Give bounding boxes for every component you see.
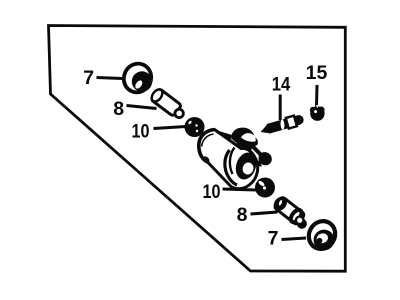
wheel cylinder body [199, 130, 260, 189]
svg-text:7: 7 [268, 228, 279, 250]
svg-text:10: 10 [203, 181, 221, 203]
bleeder cap 15 [310, 105, 325, 121]
piston 8 (top) [149, 87, 187, 120]
piston 8 (bottom) [271, 194, 312, 231]
cup seal 10 (bottom) [255, 178, 275, 198]
leader line to cup seal 10 (top) [154, 127, 187, 129]
svg-text:15: 15 [306, 62, 328, 84]
bleeder screw 14 [259, 113, 305, 136]
svg-text:8: 8 [237, 204, 248, 226]
bleeder boss on body [232, 128, 263, 157]
leader line to bleeder screw 14 [279, 95, 282, 121]
cup seal 10 (top) [185, 117, 205, 137]
frame border [49, 26, 346, 272]
leader line to piston 8 (top) [127, 106, 157, 109]
svg-text:7: 7 [83, 67, 94, 89]
svg-text:14: 14 [272, 74, 291, 96]
leader line to bleeder cap 15 [315, 85, 319, 107]
leader line to cup seal 10 (bottom) [223, 189, 258, 190]
dust cap 7 (top) [119, 59, 156, 97]
svg-text:8: 8 [113, 98, 124, 120]
leader line to cap 7 (bottom) [282, 238, 307, 240]
dust cap 7 (bottom) [304, 216, 340, 253]
mounting tab on body [255, 152, 272, 166]
leader line to cap 7 (top) [97, 78, 123, 79]
leader line to piston 8 (bottom) [251, 212, 278, 214]
svg-text:10: 10 [132, 121, 150, 143]
